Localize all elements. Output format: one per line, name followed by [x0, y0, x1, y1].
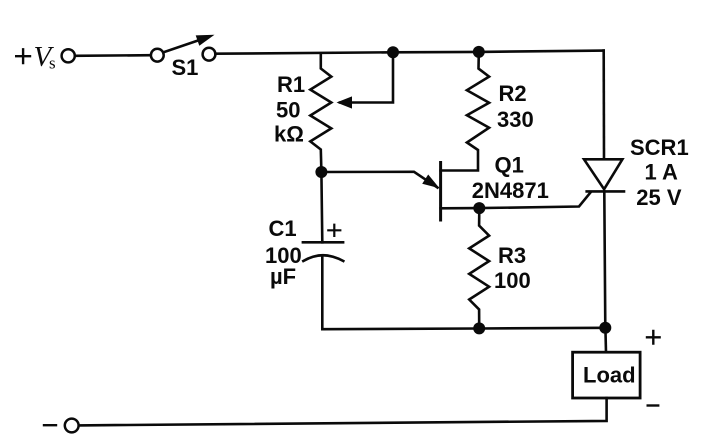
wire: top rail	[215, 51, 603, 54]
node: base1 / R3 / gate junction	[473, 202, 485, 214]
svg-text:Load: Load	[583, 363, 636, 388]
svg-text:50: 50	[276, 98, 300, 123]
load box	[573, 352, 641, 398]
node: SCR cathode / load junction	[599, 322, 611, 334]
wire: junction to load	[604, 328, 607, 352]
transistor Q1 (UJT)	[422, 163, 479, 221]
svg-text:C1: C1	[269, 216, 297, 241]
wire: gate wire to SCR	[479, 192, 590, 208]
R1 wiper arrow	[337, 52, 394, 108]
wire: junction to C1 top plate	[320, 172, 323, 242]
terminal +Vs	[62, 49, 75, 62]
polarity − at load	[648, 404, 659, 406]
resistor R3	[469, 208, 489, 328]
resistor R1 (potentiometer body)	[310, 54, 331, 172]
wire: load bottom return	[79, 398, 607, 425]
resistor R2	[441, 52, 490, 171]
svg-text:25 V: 25 V	[636, 185, 682, 210]
polarity + at load	[647, 331, 660, 344]
switch S1	[151, 35, 216, 62]
wire: C1 to bottom rail	[321, 256, 324, 329]
wire: bottom rail	[322, 328, 605, 329]
wire: emitter wire	[321, 172, 437, 188]
node: R3 bottom junction	[473, 322, 485, 334]
node: top rail / R2 junction	[473, 46, 485, 58]
SCR1 thyristor	[584, 159, 624, 327]
svg-text:R2: R2	[499, 81, 527, 106]
wire: +Vs terminal to switch S1	[75, 54, 151, 57]
svg-text:s: s	[49, 54, 56, 73]
label − supply	[44, 424, 56, 426]
svg-text:100: 100	[494, 268, 531, 293]
label +Vs supply	[16, 41, 55, 73]
svg-text:S1: S1	[172, 55, 199, 80]
svg-text:kΩ: kΩ	[274, 122, 304, 147]
wire: SCR anode drop	[602, 51, 605, 160]
svg-text:R1: R1	[277, 72, 305, 97]
svg-text:Q1: Q1	[495, 152, 524, 177]
terminal −	[65, 419, 79, 433]
svg-text:µF: µF	[270, 264, 296, 289]
polarity + of C1	[328, 225, 340, 236]
svg-text:SCR1: SCR1	[630, 135, 689, 160]
node: top rail / wiper feed junction	[387, 46, 399, 58]
svg-text:R3: R3	[498, 243, 526, 268]
svg-text:1 A: 1 A	[645, 160, 679, 185]
capacitor C1	[303, 242, 343, 261]
svg-text:2N4871: 2N4871	[472, 178, 549, 203]
svg-text:330: 330	[497, 107, 534, 132]
node: R1 / C1 / emitter junction	[315, 166, 327, 178]
